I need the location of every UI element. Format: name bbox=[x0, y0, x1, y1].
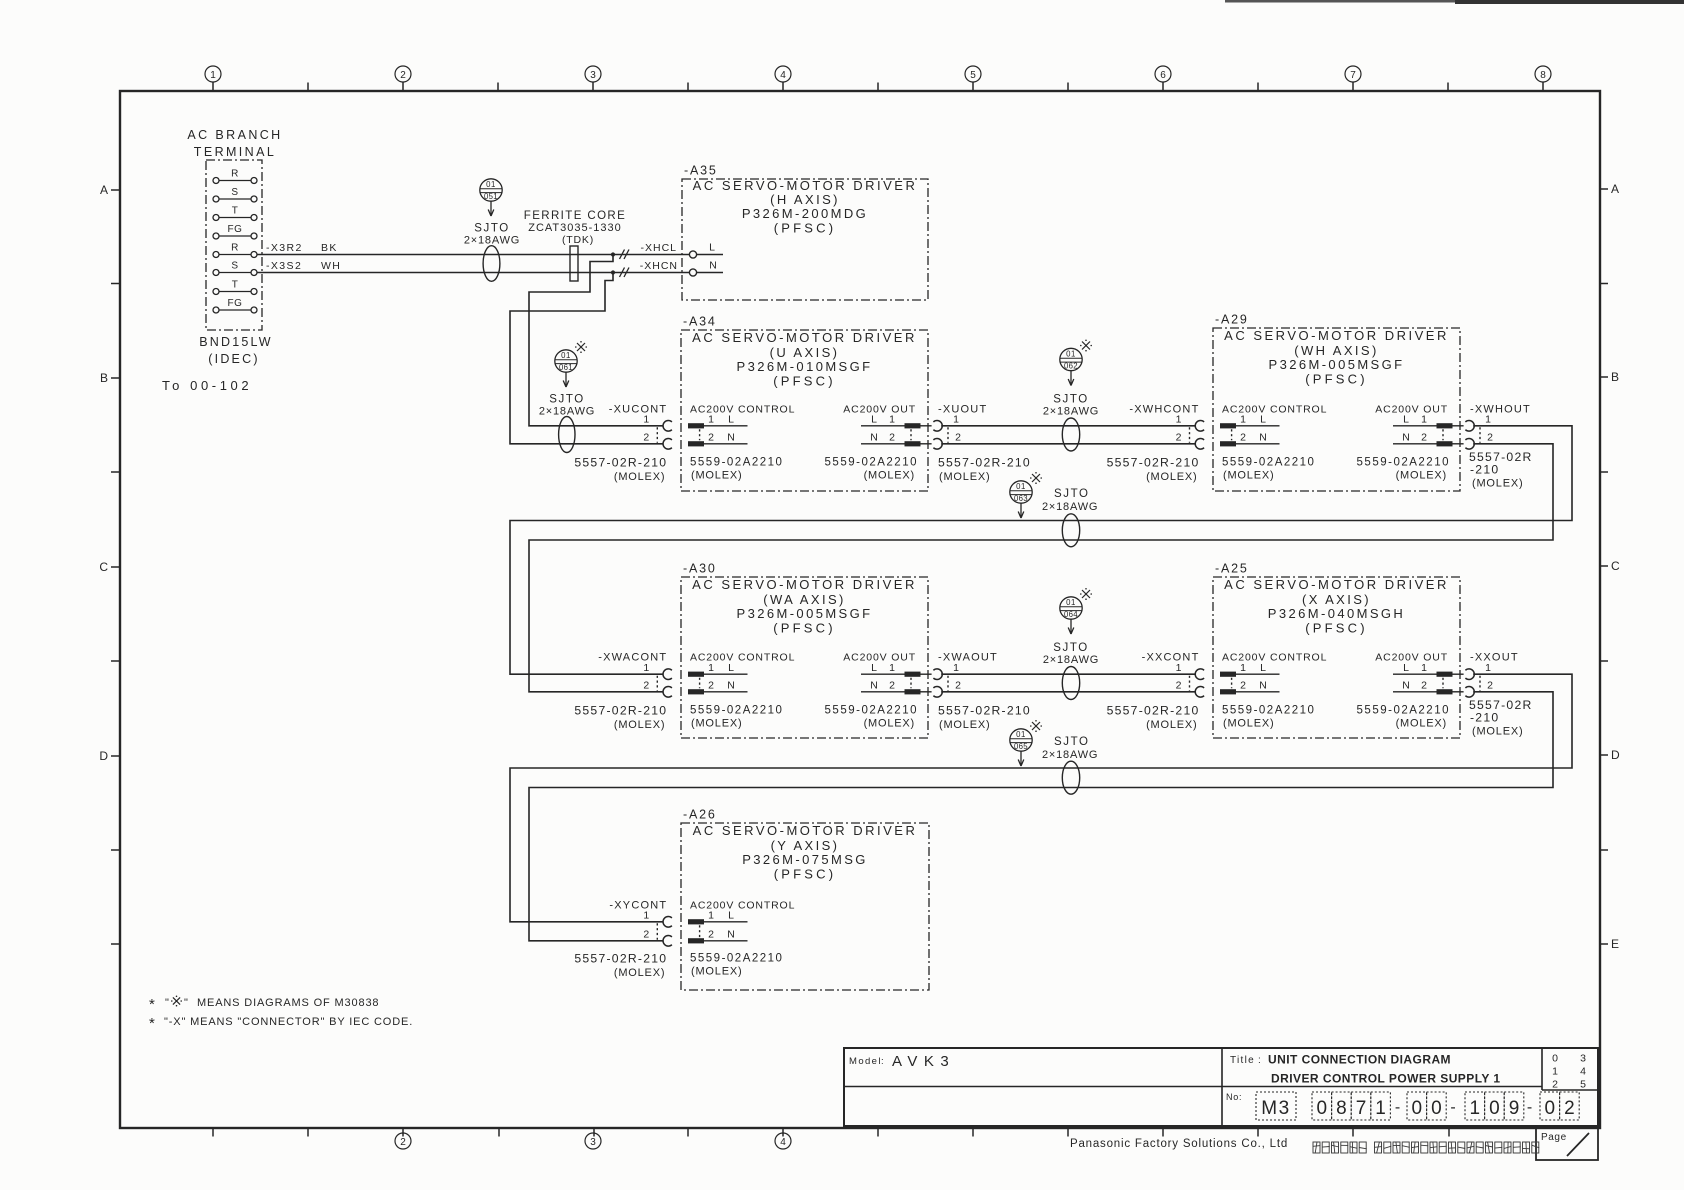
AC servo-motor driver -A34 (U AXIS) P326M-010MSGF bbox=[681, 315, 928, 492]
svg-text:L: L bbox=[728, 910, 734, 922]
svg-text:(MOLEX): (MOLEX) bbox=[1396, 718, 1447, 730]
terminal row T y=217.5 bbox=[213, 206, 257, 221]
svg-text:0: 0 bbox=[1489, 1098, 1500, 1119]
svg-text:N: N bbox=[727, 929, 735, 941]
diagram reference mark (kome) for 064 bbox=[1080, 588, 1092, 600]
connector -XXCONT 5557-02R-210 (MOLEX) pins 1,2 bbox=[1107, 652, 1205, 732]
svg-text:(MOLEX): (MOLEX) bbox=[691, 469, 742, 481]
svg-text:8: 8 bbox=[1540, 70, 1546, 81]
svg-text:L: L bbox=[728, 662, 734, 674]
arrow from 051 to cable bbox=[488, 202, 494, 217]
svg-text:AC200V OUT: AC200V OUT bbox=[1375, 652, 1448, 664]
svg-text:1: 1 bbox=[708, 910, 714, 922]
svg-text:L: L bbox=[728, 414, 734, 426]
svg-text:SJTO: SJTO bbox=[1053, 642, 1089, 654]
cable SJTO 2x18AWG (063) on run B-C bbox=[1010, 472, 1098, 547]
svg-text:ZCAT3035-1330: ZCAT3035-1330 bbox=[528, 222, 622, 234]
svg-text:5557-02R-210: 5557-02R-210 bbox=[574, 951, 667, 965]
svg-text:L: L bbox=[709, 242, 715, 254]
svg-text:-A26: -A26 bbox=[683, 808, 717, 822]
svg-text:2: 2 bbox=[889, 680, 895, 692]
svg-text:2: 2 bbox=[643, 432, 649, 444]
svg-text:5559-02A2210: 5559-02A2210 bbox=[1222, 456, 1315, 468]
svg-text:To 00-102: To 00-102 bbox=[162, 378, 252, 393]
svg-text:01: 01 bbox=[1066, 349, 1076, 358]
svg-text:(MOLEX): (MOLEX) bbox=[864, 718, 915, 730]
svg-text:2: 2 bbox=[1564, 1098, 1575, 1119]
svg-text:WH: WH bbox=[321, 260, 341, 272]
group mark // on -XHCL wire bbox=[620, 250, 630, 260]
svg-text:(PFSC): (PFSC) bbox=[773, 621, 836, 636]
svg-text:5: 5 bbox=[1580, 1079, 1586, 1091]
svg-text:(PFSC): (PFSC) bbox=[1305, 372, 1368, 387]
wire -XXOUT pin2 down and across to -XYCONT pin2 bbox=[529, 692, 1553, 941]
terminal block name BND15LW (IDEC) bbox=[199, 335, 273, 366]
svg-text:4: 4 bbox=[1580, 1066, 1586, 1078]
svg-text:3: 3 bbox=[590, 70, 596, 81]
svg-text:-A30: -A30 bbox=[683, 562, 717, 576]
svg-text:P326M-040MSGH: P326M-040MSGH bbox=[1268, 606, 1405, 621]
svg-text:3: 3 bbox=[1580, 1053, 1586, 1065]
svg-text:2: 2 bbox=[1240, 680, 1246, 692]
svg-text:(PFSC): (PFSC) bbox=[773, 374, 836, 389]
svg-text:*: * bbox=[149, 1015, 155, 1032]
svg-text:(MOLEX): (MOLEX) bbox=[864, 469, 915, 481]
svg-text:-XUOUT: -XUOUT bbox=[938, 403, 987, 415]
terminal row T y=291.5 bbox=[213, 280, 257, 295]
terminal -XHCN (N) of -A35 bbox=[689, 260, 723, 277]
drawing number M3 0871-00-109-02 bbox=[1226, 1092, 1579, 1120]
svg-text:AC200V OUT: AC200V OUT bbox=[843, 403, 916, 415]
terminal row FG y=310 bbox=[213, 298, 257, 313]
AC servo-motor driver -A25 (X AXIS) P326M-040MSGH bbox=[1213, 562, 1460, 739]
note: kome mark means diagrams of M30838 bbox=[149, 996, 379, 1014]
svg-text:5: 5 bbox=[970, 70, 976, 81]
svg-text:N: N bbox=[1259, 432, 1267, 444]
cable SJTO 2x18AWG (051) sheath symbol bbox=[464, 223, 520, 282]
svg-text:4: 4 bbox=[780, 70, 786, 81]
svg-text:(H AXIS): (H AXIS) bbox=[770, 192, 840, 207]
svg-text::: : bbox=[881, 1056, 884, 1067]
svg-text:P326M-010MSGF: P326M-010MSGF bbox=[737, 359, 873, 374]
svg-text:(MOLEX): (MOLEX) bbox=[1396, 469, 1447, 481]
svg-text:2×18AWG: 2×18AWG bbox=[539, 406, 595, 418]
svg-text:AC SERVO-MOTOR DRIVER: AC SERVO-MOTOR DRIVER bbox=[1224, 577, 1449, 592]
svg-text:-X3R2: -X3R2 bbox=[266, 242, 303, 254]
svg-text:C: C bbox=[99, 560, 108, 574]
svg-text:2×18AWG: 2×18AWG bbox=[464, 235, 520, 247]
svg-text:FG: FG bbox=[228, 298, 243, 309]
svg-text:1: 1 bbox=[708, 662, 714, 674]
arrow from 065 to cable bbox=[1018, 752, 1024, 767]
terminal row FG y=236 bbox=[213, 224, 257, 239]
diagram reference mark (kome) for 065 bbox=[1030, 720, 1042, 732]
wire label -XHCN bbox=[640, 260, 678, 272]
svg-text:AC SERVO-MOTOR DRIVER: AC SERVO-MOTOR DRIVER bbox=[1224, 328, 1449, 343]
svg-text:D: D bbox=[99, 749, 108, 763]
svg-text:AC SERVO-MOTOR DRIVER: AC SERVO-MOTOR DRIVER bbox=[693, 178, 918, 193]
diagram reference mark (kome) for 061 bbox=[575, 341, 587, 353]
terminal -XHCL (L) of -A35 bbox=[689, 242, 723, 259]
svg-text:(X AXIS): (X AXIS) bbox=[1302, 592, 1371, 607]
svg-text:2: 2 bbox=[400, 70, 406, 81]
svg-text:01: 01 bbox=[1016, 730, 1026, 739]
wire label -X3S2 WH bbox=[266, 260, 341, 272]
svg-text:Page: Page bbox=[1541, 1132, 1567, 1143]
svg-text:5557-02R-210: 5557-02R-210 bbox=[1107, 704, 1200, 718]
svg-text:L: L bbox=[1403, 662, 1409, 674]
svg-text:8: 8 bbox=[1336, 1098, 1347, 1119]
svg-text:1: 1 bbox=[643, 662, 649, 674]
svg-text:AC200V CONTROL: AC200V CONTROL bbox=[1222, 403, 1327, 415]
arrow from 063 to cable bbox=[1018, 504, 1024, 519]
svg-text:(MOLEX): (MOLEX) bbox=[1472, 726, 1523, 738]
svg-text:": " bbox=[165, 997, 169, 1009]
svg-text:2×18AWG: 2×18AWG bbox=[1042, 749, 1098, 761]
svg-text:-XXOUT: -XXOUT bbox=[1470, 652, 1519, 664]
svg-text:2: 2 bbox=[889, 432, 895, 444]
svg-text:P326M-200MDG: P326M-200MDG bbox=[742, 206, 868, 221]
wire -XWAOUT pin2 to -XXCONT pin2 bbox=[941, 691, 1195, 693]
svg-text:0: 0 bbox=[1412, 1098, 1423, 1119]
svg-text:2: 2 bbox=[708, 680, 714, 692]
svg-text:-XUCONT: -XUCONT bbox=[609, 403, 668, 415]
svg-text:1: 1 bbox=[1552, 1066, 1558, 1078]
connector 5559-02A2210 AC200V OUT of -A29 (pins L 1 / N 2) bbox=[1357, 403, 1464, 481]
svg-text:AC200V CONTROL: AC200V CONTROL bbox=[690, 403, 795, 415]
svg-text:N: N bbox=[870, 432, 878, 444]
svg-text:1: 1 bbox=[953, 414, 959, 426]
svg-text:-XWAOUT: -XWAOUT bbox=[938, 652, 998, 664]
AC servo-motor driver -A29 (WH AXIS) P326M-005MSGF bbox=[1213, 313, 1460, 492]
connector 5559-02A2210 AC200V CONTROL of -A25 (pins 1 L / 2 N) bbox=[1220, 652, 1327, 730]
svg-text:No: No bbox=[1226, 1092, 1239, 1102]
svg-text:L: L bbox=[1260, 414, 1266, 426]
svg-text:Title: Title bbox=[1230, 1055, 1255, 1066]
svg-text:01: 01 bbox=[1016, 482, 1026, 491]
cable SJTO 2x18AWG (061) into -XUCONT bbox=[539, 341, 595, 453]
connector 5559-02A2210 AC200V CONTROL of -A34 (pins 1 L / 2 N) bbox=[688, 403, 795, 481]
svg-text:D: D bbox=[1611, 748, 1620, 762]
svg-text:-XHCL: -XHCL bbox=[640, 242, 677, 254]
svg-text:S: S bbox=[231, 187, 238, 198]
svg-text:(PFSC): (PFSC) bbox=[774, 221, 837, 236]
svg-text:AC200V CONTROL: AC200V CONTROL bbox=[690, 899, 795, 911]
svg-text:(MOLEX): (MOLEX) bbox=[939, 719, 990, 731]
svg-text:1: 1 bbox=[953, 662, 959, 674]
connector -XYCONT 5557-02R-210 (MOLEX) pins 1,2 bbox=[574, 899, 672, 979]
svg-text:2×18AWG: 2×18AWG bbox=[1042, 501, 1098, 513]
connector -XXOUT 5557-02R (MOLEX) pins 1,2 bbox=[1465, 652, 1532, 738]
svg-text:BK: BK bbox=[321, 242, 338, 254]
svg-text:1: 1 bbox=[1240, 414, 1246, 426]
wire -XUOUT pin1 to -XWHCONT pin1 bbox=[941, 425, 1195, 427]
company name in Japanese (stylised) bbox=[1313, 1142, 1539, 1153]
svg-text:FERRITE CORE: FERRITE CORE bbox=[524, 210, 626, 222]
svg-text:N: N bbox=[727, 432, 735, 444]
svg-text:-210: -210 bbox=[1470, 711, 1499, 725]
svg-text:(MOLEX): (MOLEX) bbox=[939, 471, 990, 483]
svg-text:AC SERVO-MOTOR DRIVER: AC SERVO-MOTOR DRIVER bbox=[692, 330, 917, 345]
AC servo-motor driver -A26 (Y AXIS) P326M-075MSG bbox=[681, 808, 929, 991]
title block bbox=[844, 1048, 1598, 1126]
svg-text:063: 063 bbox=[1014, 494, 1028, 503]
svg-text:061: 061 bbox=[559, 363, 573, 372]
wire -XXOUT pin1 down and across to -XYCONT pin1 bbox=[510, 674, 1572, 922]
svg-text:*: * bbox=[149, 996, 155, 1013]
svg-text:-XWACONT: -XWACONT bbox=[598, 652, 667, 664]
svg-text:4: 4 bbox=[780, 1137, 786, 1148]
svg-text:-210: -210 bbox=[1470, 462, 1499, 476]
svg-text:-XXCONT: -XXCONT bbox=[1142, 652, 1200, 664]
svg-text:(MOLEX): (MOLEX) bbox=[614, 967, 665, 979]
svg-text:(MOLEX): (MOLEX) bbox=[1146, 471, 1197, 483]
svg-text:2: 2 bbox=[1176, 680, 1182, 692]
svg-text:1: 1 bbox=[1176, 662, 1182, 674]
wire -X3S2 (WH) phase S from terminal to -XHCN bbox=[257, 272, 689, 274]
svg-text:5559-02A2210: 5559-02A2210 bbox=[1357, 705, 1450, 717]
svg-text:2×18AWG: 2×18AWG bbox=[1043, 654, 1099, 666]
svg-text:2: 2 bbox=[708, 432, 714, 444]
svg-text:AVK3: AVK3 bbox=[892, 1053, 955, 1070]
svg-text:0: 0 bbox=[1317, 1098, 1328, 1119]
svg-text:N: N bbox=[1259, 680, 1267, 692]
svg-text:N: N bbox=[1402, 432, 1410, 444]
connector 5559-02A2210 AC200V OUT of -A30 (pins L 1 / N 2) bbox=[825, 652, 932, 730]
svg-text:M3: M3 bbox=[1261, 1098, 1290, 1119]
AC servo-motor driver -A30 (WA AXIS) P326M-005MSGF bbox=[681, 562, 928, 739]
svg-text:1: 1 bbox=[708, 414, 714, 426]
svg-text:051: 051 bbox=[484, 192, 498, 201]
connector 5559-02A2210 AC200V OUT of -A34 (pins L 1 / N 2) bbox=[825, 403, 932, 481]
svg-text:2: 2 bbox=[1421, 432, 1427, 444]
connector -XUCONT 5557-02R-210 (MOLEX) pins 1,2 bbox=[574, 403, 672, 483]
AC servo-motor driver -A35 (H AXIS) P326M-200MDG bbox=[682, 164, 928, 301]
connector 5559-02A2210 AC200V OUT of -A25 (pins L 1 / N 2) bbox=[1357, 652, 1464, 730]
svg-text:AC SERVO-MOTOR DRIVER: AC SERVO-MOTOR DRIVER bbox=[692, 577, 917, 592]
wire -XWAOUT pin1 to -XXCONT pin1 bbox=[941, 673, 1195, 675]
connector -XWAOUT 5557-02R-210 (MOLEX) pins 1,2 bbox=[933, 652, 1031, 732]
svg-text:N: N bbox=[727, 680, 735, 692]
svg-text:(TDK): (TDK) bbox=[562, 234, 594, 246]
wire branch phase R down to -XUCONT pin1 bbox=[529, 255, 663, 426]
cable reference symbol 01/062 bbox=[1060, 348, 1082, 370]
svg-text:SJTO: SJTO bbox=[1054, 488, 1090, 500]
svg-text:AC200V CONTROL: AC200V CONTROL bbox=[1222, 652, 1327, 664]
svg-text:2×18AWG: 2×18AWG bbox=[1043, 406, 1099, 418]
svg-text:5559-02A2210: 5559-02A2210 bbox=[690, 952, 783, 964]
svg-text:2: 2 bbox=[643, 680, 649, 692]
svg-text:5559-02A2210: 5559-02A2210 bbox=[690, 456, 783, 468]
arrow from 064 to cable bbox=[1068, 620, 1074, 635]
svg-text:1: 1 bbox=[1485, 414, 1491, 426]
svg-text:B: B bbox=[1611, 370, 1619, 384]
svg-text:MEANS DIAGRAMS OF M30838: MEANS DIAGRAMS OF M30838 bbox=[197, 997, 379, 1009]
svg-text::: : bbox=[1258, 1055, 1261, 1066]
svg-text:DRIVER CONTROL POWER SUPPLY 1: DRIVER CONTROL POWER SUPPLY 1 bbox=[1271, 1072, 1501, 1086]
svg-text:1: 1 bbox=[889, 662, 895, 674]
svg-text:-: - bbox=[1527, 1099, 1532, 1116]
svg-text:-: - bbox=[1395, 1099, 1400, 1116]
svg-text:(PFSC): (PFSC) bbox=[1305, 621, 1368, 636]
svg-text:R: R bbox=[231, 169, 239, 180]
cable reference symbol 01/061 bbox=[555, 350, 577, 372]
cable SJTO 2x18AWG (062) between -XUOUT and -XWHCONT bbox=[1043, 340, 1099, 452]
svg-text:P326M-075MSG: P326M-075MSG bbox=[742, 852, 868, 867]
svg-text:A: A bbox=[100, 183, 108, 197]
arrow from 062 to cable bbox=[1068, 371, 1074, 386]
svg-text:1: 1 bbox=[1375, 1098, 1386, 1119]
svg-text:(MOLEX): (MOLEX) bbox=[691, 965, 742, 977]
svg-text:(MOLEX): (MOLEX) bbox=[614, 471, 665, 483]
svg-text:(WA AXIS): (WA AXIS) bbox=[763, 592, 846, 607]
svg-text:2: 2 bbox=[1487, 680, 1493, 692]
terminal row S y=199 bbox=[213, 187, 257, 202]
svg-text:P326M-005MSGF: P326M-005MSGF bbox=[737, 606, 873, 621]
svg-text:1: 1 bbox=[1485, 662, 1491, 674]
svg-text:R: R bbox=[231, 243, 239, 254]
svg-text:SJTO: SJTO bbox=[1053, 394, 1089, 406]
svg-text:AC SERVO-MOTOR DRIVER: AC SERVO-MOTOR DRIVER bbox=[693, 823, 918, 838]
svg-text:N: N bbox=[870, 680, 878, 692]
svg-text:0: 0 bbox=[1545, 1098, 1556, 1119]
svg-text:1: 1 bbox=[1240, 662, 1246, 674]
wire label -X3R2 BK bbox=[266, 242, 338, 254]
group mark // on -XHCN wire bbox=[620, 268, 630, 278]
svg-text:L: L bbox=[1260, 662, 1266, 674]
svg-text:065: 065 bbox=[1014, 742, 1028, 751]
svg-text:N: N bbox=[709, 260, 717, 272]
svg-text:(WH AXIS): (WH AXIS) bbox=[1294, 343, 1378, 358]
cable SJTO 2x18AWG (064) between -XWAOUT and -XXCONT bbox=[1043, 588, 1099, 700]
svg-text:"-X" MEANS "CONNECTOR" BY IEC: "-X" MEANS "CONNECTOR" BY IEC CODE. bbox=[164, 1016, 413, 1028]
svg-text:-XWHCONT: -XWHCONT bbox=[1129, 403, 1199, 415]
svg-text:T: T bbox=[232, 280, 239, 291]
svg-text:SJTO: SJTO bbox=[474, 223, 510, 235]
svg-text:9: 9 bbox=[1509, 1098, 1520, 1119]
svg-text:7: 7 bbox=[1356, 1098, 1367, 1119]
svg-text:S: S bbox=[231, 261, 238, 272]
svg-text:L: L bbox=[871, 662, 877, 674]
svg-text:2: 2 bbox=[1176, 432, 1182, 444]
connector -XUOUT 5557-02R-210 (MOLEX) pins 1,2 bbox=[933, 403, 1031, 483]
svg-text:5559-02A2210: 5559-02A2210 bbox=[825, 705, 918, 717]
wire -XUOUT pin2 to -XWHCONT pin2 bbox=[941, 443, 1195, 445]
company name Panasonic Factory Solutions bbox=[1070, 1138, 1288, 1150]
svg-text:-: - bbox=[1450, 1099, 1455, 1116]
svg-text:B: B bbox=[100, 371, 108, 385]
model label AVK3 bbox=[849, 1053, 955, 1070]
note: -X means connector by IEC code bbox=[149, 1015, 413, 1032]
svg-text:AC200V OUT: AC200V OUT bbox=[1375, 403, 1448, 415]
svg-text:UNIT CONNECTION DIAGRAM: UNIT CONNECTION DIAGRAM bbox=[1268, 1053, 1451, 1067]
svg-text:Panasonic Factory Solutions Co: Panasonic Factory Solutions Co., Ltd bbox=[1070, 1138, 1288, 1150]
svg-text:2: 2 bbox=[955, 680, 961, 692]
svg-text:T: T bbox=[232, 206, 239, 217]
svg-text:064: 064 bbox=[1064, 610, 1078, 619]
svg-text:2: 2 bbox=[1487, 432, 1493, 444]
svg-text:2: 2 bbox=[1552, 1079, 1558, 1091]
terminal block -TB BND15LW (IDEC) AC BRANCH TERMINAL bbox=[187, 128, 282, 330]
svg-text:C: C bbox=[1611, 559, 1620, 573]
svg-text:-XHCN: -XHCN bbox=[640, 260, 678, 272]
svg-text:5559-02A2210: 5559-02A2210 bbox=[1222, 705, 1315, 717]
diagram reference mark (kome) for 062 bbox=[1080, 340, 1092, 352]
svg-text:01: 01 bbox=[1066, 598, 1076, 607]
junction dot on -XHCL wire bbox=[611, 252, 615, 256]
svg-text:2: 2 bbox=[708, 929, 714, 941]
svg-text:-XWHOUT: -XWHOUT bbox=[1470, 403, 1531, 415]
svg-text:1: 1 bbox=[889, 414, 895, 426]
svg-text:1: 1 bbox=[1470, 1098, 1481, 1119]
svg-text:(MOLEX): (MOLEX) bbox=[1223, 469, 1274, 481]
svg-text:AC200V CONTROL: AC200V CONTROL bbox=[690, 652, 795, 664]
wire label -XHCL bbox=[640, 242, 677, 254]
svg-text:TERMINAL: TERMINAL bbox=[194, 145, 276, 159]
svg-text:6: 6 bbox=[1160, 70, 1166, 81]
svg-text:L: L bbox=[871, 414, 877, 426]
junction dot on -XHCN wire bbox=[611, 270, 615, 274]
svg-text:5557-02R-210: 5557-02R-210 bbox=[1107, 455, 1200, 469]
cable SJTO 2x18AWG (065) on run C-E bbox=[1010, 720, 1098, 794]
svg-text:01: 01 bbox=[486, 180, 496, 189]
svg-text:(MOLEX): (MOLEX) bbox=[614, 719, 665, 731]
svg-text:(U AXIS): (U AXIS) bbox=[770, 345, 840, 360]
svg-text:1: 1 bbox=[643, 910, 649, 922]
cable reference symbol 01/064 bbox=[1060, 597, 1082, 619]
svg-text:(MOLEX): (MOLEX) bbox=[1146, 719, 1197, 731]
svg-text:Model: Model bbox=[849, 1056, 882, 1067]
svg-text:5557-02R-210: 5557-02R-210 bbox=[574, 455, 667, 469]
terminal row S y=272.5 bbox=[213, 261, 257, 276]
svg-text:FG: FG bbox=[228, 224, 243, 235]
connector 5559-02A2210 AC200V CONTROL of -A26 (pins 1 L / 2 N) bbox=[688, 899, 795, 977]
wire -XWHOUT pin2 down and across to -XWACONT pin2 bbox=[529, 444, 1553, 692]
connector -XWHOUT 5557-02R (MOLEX) pins 1,2 bbox=[1465, 403, 1532, 489]
svg-text:062: 062 bbox=[1064, 362, 1078, 371]
svg-text:5559-02A2210: 5559-02A2210 bbox=[825, 456, 918, 468]
svg-text:01: 01 bbox=[561, 351, 571, 360]
arrow from 061 to cable bbox=[563, 373, 569, 388]
svg-text:(IDEC): (IDEC) bbox=[208, 352, 259, 366]
svg-text:0: 0 bbox=[1431, 1098, 1442, 1119]
svg-text:1: 1 bbox=[1421, 414, 1427, 426]
svg-text:A: A bbox=[1611, 182, 1619, 196]
svg-text:SJTO: SJTO bbox=[1054, 736, 1090, 748]
cable reference symbol 01/063 bbox=[1010, 481, 1032, 503]
svg-text:L: L bbox=[1403, 414, 1409, 426]
cable reference symbol 01/065 bbox=[1010, 729, 1032, 751]
svg-text:7: 7 bbox=[1350, 70, 1356, 81]
svg-text:AC200V OUT: AC200V OUT bbox=[843, 652, 916, 664]
svg-text:2: 2 bbox=[643, 929, 649, 941]
svg-text:-X3S2: -X3S2 bbox=[266, 260, 302, 272]
svg-text:2: 2 bbox=[400, 1137, 406, 1148]
wire -X3R2 (BK) phase R from terminal to -XHCL bbox=[257, 254, 689, 256]
svg-text:1: 1 bbox=[643, 414, 649, 426]
svg-text:2: 2 bbox=[1421, 680, 1427, 692]
svg-text::: : bbox=[1239, 1092, 1242, 1102]
svg-text:(MOLEX): (MOLEX) bbox=[1472, 477, 1523, 489]
svg-text:-A25: -A25 bbox=[1215, 562, 1249, 576]
wire -XWHOUT pin1 down and across to -XWACONT pin1 bbox=[510, 426, 1572, 674]
svg-text:": " bbox=[184, 997, 188, 1009]
svg-text:-A29: -A29 bbox=[1215, 313, 1249, 327]
svg-text:(MOLEX): (MOLEX) bbox=[691, 718, 742, 730]
svg-text:5559-02A2210: 5559-02A2210 bbox=[1357, 456, 1450, 468]
cable reference symbol 01/051 bbox=[480, 179, 502, 201]
svg-text:-A35: -A35 bbox=[684, 164, 718, 178]
